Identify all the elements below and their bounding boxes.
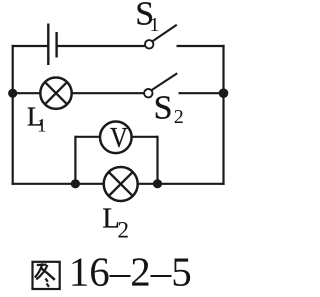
- svg-text:1: 1: [37, 116, 47, 137]
- svg-text:V: V: [110, 123, 128, 154]
- svg-text:2: 2: [118, 218, 130, 243]
- svg-text:S: S: [154, 89, 173, 126]
- svg-text:16–2–5: 16–2–5: [69, 249, 192, 295]
- svg-text:1: 1: [150, 14, 160, 36]
- svg-text:2: 2: [174, 106, 184, 128]
